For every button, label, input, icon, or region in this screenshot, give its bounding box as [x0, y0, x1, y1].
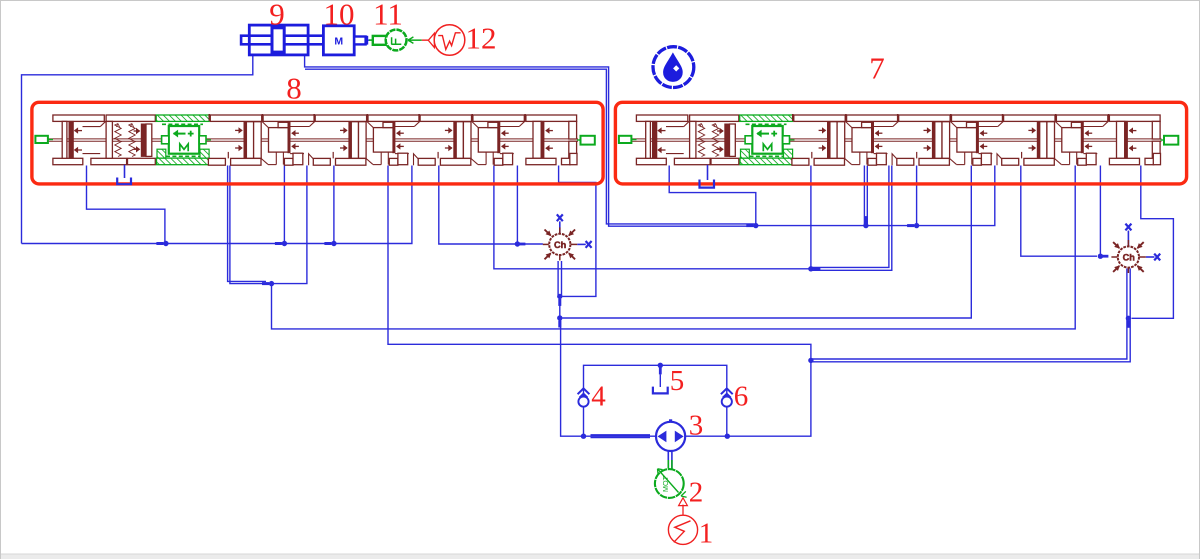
signal source 12 (red): [434, 25, 465, 56]
chamber element Ch1 (Ch): [543, 214, 592, 260]
check valve 4: [578, 388, 590, 406]
box8 spool metering stage 3: [418, 114, 420, 121]
wire: pump suction rail: [584, 435, 657, 437]
tank under box8 spring section: [124, 165, 126, 178]
shaft pump to motor: [667, 451, 669, 469]
box8 frame (red enclosure): [32, 102, 603, 184]
signal arrow source 1 to motor 2: [682, 505, 684, 515]
wire: box7 pair drops x864/867: [863, 166, 865, 226]
svg-text:4: 4: [591, 381, 606, 413]
wire: box7 drop x1141 around to Ch2 lower node: [1132, 166, 1174, 319]
box8 end cap with outlet: [524, 114, 526, 121]
wire: cylinder left port to pilot bus: [22, 55, 253, 244]
box8 pilot piston section: [53, 115, 104, 121]
box7 spool metering stage 2: [897, 114, 899, 121]
box7 spool metering stage 3: [1002, 114, 1004, 121]
wire: box8 drop x517 junction: [516, 166, 518, 245]
box8 solenoid block (green, hatched mounts): [156, 115, 209, 165]
signal source 1 (red): [668, 515, 697, 544]
box8 spring section: [106, 115, 155, 121]
wire: box7 drop x916.6: [916, 166, 918, 226]
svg-text:5: 5: [670, 365, 685, 397]
hydraulic cylinder 9 (double rod): [241, 36, 323, 45]
wire: box8 drop x334: [333, 166, 335, 244]
box7 pilot piston section: [636, 115, 687, 121]
wire: box8 suction pair to node A: [228, 166, 266, 282]
wire: check valve loop top rail: [584, 365, 727, 436]
svg-text:11: 11: [373, 0, 403, 32]
svg-text:1: 1: [699, 518, 714, 550]
wire: box8 drop x388 to long line y=344.3: [388, 166, 811, 361]
wire: box7 drop x971 to line y=318: [562, 166, 971, 319]
wire: box8 drop x494 to long line y=268.8: [494, 166, 811, 269]
wire: Ch2 lower chain: [1126, 269, 1128, 318]
wire: Ch1 lower chain to pump suction: [557, 261, 559, 295]
box7 spool metering stage 1: [792, 114, 794, 121]
svg-text:M: M: [334, 35, 343, 47]
force sensor 11 (green): [369, 39, 373, 41]
box7 outlet port (green): [1161, 139, 1165, 141]
box8 outlet port (green): [577, 139, 581, 141]
wire: box8 drop x438.8 to chamber-sensor Ch1: [439, 166, 543, 245]
box7 frame (red enclosure): [615, 102, 1186, 184]
svg-text:Ch: Ch: [1123, 253, 1136, 263]
wire: box8 port1 jog: [87, 166, 165, 244]
wire: pair y=268.8 to box7 ports x889/892: [811, 166, 889, 268]
tank 5: [653, 367, 668, 393]
prime mover 2 (green motor): [655, 469, 684, 498]
svg-text:8: 8: [286, 71, 302, 106]
tank under box7 spring section: [707, 165, 709, 180]
wire: box8 last port routed to Ch1 lower node: [559, 166, 596, 297]
svg-text:Ch: Ch: [554, 240, 567, 250]
box7 end cap with outlet: [1108, 114, 1110, 121]
wire: box8 drop x284: [283, 166, 285, 244]
wire: main bus y=243.5: [22, 166, 412, 244]
wire: box7 drop x1021 to Ch2: [1021, 166, 1097, 257]
svg-text:6: 6: [734, 381, 749, 413]
chamber element Ch2 (Ch): [1111, 224, 1160, 273]
svg-text:12: 12: [466, 21, 497, 56]
box7 solenoid block (green, hatched mounts): [740, 115, 793, 165]
wire: box7 drop x810.9 to long line y=268.8: [810, 166, 812, 269]
svg-text:10: 10: [324, 0, 355, 32]
box8 piston rod centerline: [48, 138, 578, 140]
wire: pump discharge to riser: [685, 360, 811, 436]
wire: H bus y=225.6 under box7: [756, 166, 995, 226]
box8 spool metering stage 1: [208, 114, 210, 121]
box7 inlet port (green): [619, 136, 632, 143]
box8 spool metering stage 2: [313, 114, 315, 121]
svg-text:9: 9: [269, 0, 285, 32]
svg-text:7: 7: [869, 51, 885, 86]
wire: cylinder right port double line to boxes junction: [305, 55, 756, 226]
check valve 6: [721, 388, 733, 406]
svg-text:3: 3: [689, 410, 704, 442]
box7 piston rod centerline: [632, 138, 1162, 140]
pump 3 (bidirectional): [656, 420, 685, 451]
box7 spring section: [690, 115, 739, 121]
signal link from source 12 to sensor 11: [409, 39, 422, 41]
box8 inlet port (green): [35, 136, 48, 143]
wire: box7 port1 jog to junction: [669, 166, 756, 226]
window bottom strip: [1, 554, 1199, 559]
wire: node A down to long line y=329: [272, 166, 1076, 329]
fluid properties icon (blue droplet): [653, 47, 694, 88]
mass block 10: [323, 26, 354, 55]
svg-text:2: 2: [689, 477, 704, 509]
wire: box7 drop x1100 to Ch2 junction: [1099, 166, 1101, 257]
wire: box8 drop x307 to node A: [272, 166, 307, 284]
